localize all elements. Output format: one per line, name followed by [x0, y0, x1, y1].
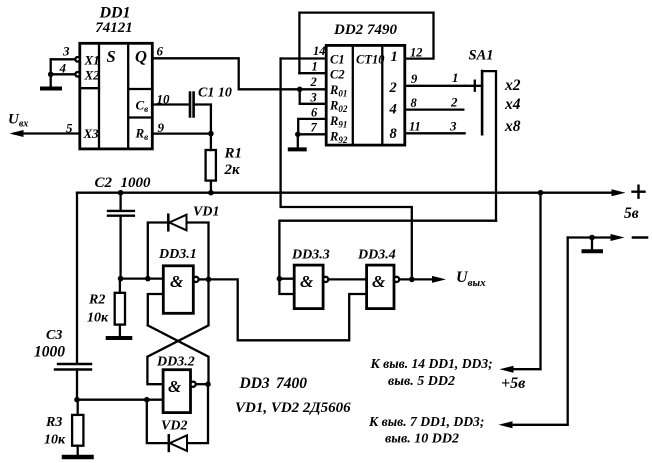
svg-text:К выв. 7 DD1, DD3;: К выв. 7 DD1, DD3; — [368, 414, 484, 429]
plus sign — [633, 186, 645, 198]
svg-text:7: 7 — [311, 121, 318, 135]
wire DD3.1 output — [199, 278, 209, 280]
svg-text:VD1, VD2 2Д5606: VD1, VD2 2Д5606 — [235, 400, 351, 416]
rail arrowhead plus — [612, 189, 626, 196]
wire node to DD3.2 input — [77, 399, 163, 401]
svg-text:14: 14 — [313, 44, 326, 58]
output arrowhead Uвых — [432, 276, 446, 283]
svg-text:&: & — [372, 272, 386, 291]
svg-text:9: 9 — [411, 72, 418, 86]
svg-text:x8: x8 — [504, 118, 521, 135]
svg-text:3: 3 — [449, 119, 457, 134]
wire node to DD3.1 input — [121, 277, 164, 279]
wire rail to C2 — [119, 193, 121, 210]
wire R92 pin7 — [298, 133, 326, 135]
gate DD3.1 body — [163, 266, 198, 314]
junction rail to R1 — [208, 190, 214, 196]
svg-text:VD2: VD2 — [161, 419, 187, 434]
ground bar under X1/X2 — [42, 87, 60, 91]
svg-text:11: 11 — [409, 120, 421, 134]
svg-text:Cв: Cв — [136, 98, 149, 115]
svg-text:&: & — [300, 272, 314, 291]
svg-text:Uвх: Uвх — [8, 112, 28, 130]
diode VD2 loop wire — [147, 384, 208, 443]
gate DD3.3 body — [294, 265, 328, 309]
wire joining pins 3,4 — [50, 59, 52, 88]
svg-text:DD3.1: DD3.1 — [158, 247, 197, 262]
svg-text:C1: C1 — [330, 53, 345, 67]
wire DD3.1 output run to DD3.4 — [209, 279, 367, 340]
minus sign — [633, 236, 647, 239]
minus branch arrowhead — [499, 421, 513, 428]
svg-text:+5в: +5в — [501, 375, 525, 392]
ground bar minus rail — [584, 249, 602, 253]
junction DD3.3 input — [277, 276, 283, 282]
wire DD3.2 output — [196, 383, 208, 385]
junction pins 3-4 — [48, 72, 54, 78]
svg-text:2к: 2к — [224, 162, 241, 178]
svg-text:R01: R01 — [329, 83, 347, 99]
wire SA1 common to DD3.3 input — [279, 221, 496, 279]
ground bar R2 — [108, 336, 131, 340]
svg-text:DD3.2: DD3.2 — [156, 355, 195, 370]
svg-text:DD2: DD2 — [333, 22, 364, 38]
svg-text:S: S — [107, 47, 116, 66]
capacitor C2 plates — [108, 211, 134, 216]
minus rail wire — [568, 236, 611, 238]
svg-text:x4: x4 — [504, 96, 521, 113]
junction DD3.4 output — [409, 277, 415, 283]
ground bar R3 — [64, 455, 92, 460]
svg-text:R1: R1 — [224, 146, 243, 162]
svg-text:5: 5 — [66, 121, 73, 136]
wire C2 pin1 — [299, 72, 326, 74]
ground stub DD2 — [297, 134, 299, 149]
svg-text:Rв: Rв — [135, 126, 149, 143]
capacitor C3 plates — [55, 364, 91, 370]
wire R1 to +5v rail — [210, 181, 212, 193]
cross wire DD3.2out to DD3.1in — [148, 325, 209, 384]
svg-text:7400: 7400 — [276, 375, 307, 392]
wire DD3.1 input2 to cross — [148, 294, 164, 325]
feedback wire DD3.4out to DD2 C1 — [281, 59, 412, 280]
diode VD2 — [169, 435, 187, 451]
junction C3/R3 — [74, 397, 80, 403]
resistor R1 — [206, 150, 216, 181]
svg-text:VD1: VD1 — [193, 205, 219, 220]
svg-text:X3: X3 — [83, 126, 100, 141]
wire C1 pin14 — [281, 57, 327, 59]
switch SA1 moving contact — [465, 81, 482, 91]
feedback loop pin12 to C2 — [299, 13, 433, 74]
wire node to R1 — [210, 134, 212, 150]
wire output8 pin11 — [405, 132, 465, 134]
svg-text:SA1: SA1 — [469, 48, 494, 64]
svg-text:x2: x2 — [504, 77, 521, 94]
svg-text:CT10: CT10 — [356, 53, 385, 67]
+5v power rail — [77, 192, 612, 194]
svg-text:R02: R02 — [329, 99, 348, 115]
input arrowhead Uвх — [10, 130, 24, 137]
diode VD1 — [168, 215, 186, 231]
svg-text:X2: X2 — [84, 68, 101, 83]
svg-text:R91: R91 — [329, 114, 347, 130]
wire R2 to ground — [119, 325, 121, 338]
switch SA1 wiper bar — [481, 71, 484, 134]
wire DD3.3 input2 loop — [279, 279, 294, 294]
wire pin5 X3 to input — [14, 132, 80, 134]
wire DD3.3 out to DD3.4 — [328, 278, 366, 280]
+5v branch arrowhead — [500, 366, 514, 373]
wire DD3.4 output — [399, 278, 433, 280]
svg-text:&: & — [170, 272, 184, 291]
junction R91/R92 — [295, 132, 301, 138]
svg-text:3: 3 — [310, 91, 317, 105]
svg-text:&: & — [168, 377, 182, 396]
+5v branch wire — [514, 193, 541, 370]
svg-text:R2: R2 — [88, 293, 105, 308]
svg-text:4: 4 — [389, 102, 397, 118]
svg-text:C1 10: C1 10 — [198, 86, 232, 101]
wire pin9 Rв — [152, 132, 211, 134]
svg-text:X1: X1 — [84, 53, 100, 68]
cross wire DD3.1out to DD3.2in — [147, 279, 208, 384]
svg-text:К выв. 14 DD1, DD3;: К выв. 14 DD1, DD3; — [370, 356, 493, 371]
svg-text:10к: 10к — [87, 311, 109, 326]
ground stub minus rail — [591, 238, 593, 251]
svg-text:1000: 1000 — [121, 175, 152, 191]
DD1 inverter circle pin X1 — [75, 57, 80, 62]
junction rail to +5v branch — [538, 190, 544, 196]
wire pin4 to X2 — [51, 73, 76, 75]
svg-text:10: 10 — [157, 92, 171, 107]
DD1 inverter circle pin X2 — [75, 72, 80, 77]
svg-text:выв. 10 DD2: выв. 10 DD2 — [385, 432, 459, 447]
svg-text:6: 6 — [157, 44, 164, 59]
svg-text:6: 6 — [311, 106, 318, 120]
svg-text:DD3.3: DD3.3 — [291, 248, 330, 263]
svg-text:R92: R92 — [329, 130, 348, 146]
wire pin10 Cв to C1 — [152, 103, 189, 105]
minus rail arrowhead — [611, 234, 625, 241]
ground bar DD2 — [290, 147, 305, 151]
svg-text:R3: R3 — [45, 415, 62, 430]
svg-text:Uвых: Uвых — [456, 269, 486, 289]
svg-text:7490: 7490 — [367, 22, 398, 38]
svg-text:C3: C3 — [46, 328, 62, 343]
svg-text:1000: 1000 — [34, 344, 65, 361]
svg-text:DD3: DD3 — [239, 375, 270, 392]
junction C1/R1/pin9 — [208, 131, 214, 137]
svg-text:12: 12 — [410, 46, 423, 60]
diode VD1 loop wire — [148, 223, 209, 280]
svg-text:DD3.4: DD3.4 — [357, 248, 396, 263]
svg-text:Q: Q — [135, 47, 147, 66]
svg-text:выв. 5 DD2: выв. 5 DD2 — [388, 374, 455, 389]
svg-text:DD1: DD1 — [98, 5, 130, 22]
wire output4 pin8 — [405, 108, 464, 110]
wire R91 pin6 — [298, 119, 326, 134]
wire rail left drop to C3 — [76, 193, 78, 363]
wire C2 to latch input node — [119, 216, 121, 279]
minus branch wire — [513, 238, 568, 425]
wire node to R2 — [119, 279, 121, 293]
switch SA1 common link — [482, 71, 496, 221]
junction C2/R2/latch — [118, 276, 124, 282]
wire output2 pin9 — [405, 85, 465, 87]
junction rail to C2 — [118, 190, 124, 196]
IC DD1 74121 body — [80, 43, 153, 149]
capacitor C1 plates — [190, 93, 194, 117]
resistor R2 — [115, 293, 125, 325]
wire C3 to node — [76, 370, 78, 400]
svg-text:8: 8 — [411, 96, 418, 110]
svg-text:C2: C2 — [330, 68, 345, 82]
wire pin3 to X1 — [51, 58, 76, 60]
svg-text:C2: C2 — [95, 175, 113, 191]
svg-text:4: 4 — [59, 61, 67, 76]
wire R02 pin3 riser — [300, 89, 327, 104]
gate DD3.4 body — [367, 265, 400, 309]
svg-text:10к: 10к — [44, 433, 66, 448]
IC DD2 7490 body — [326, 45, 405, 145]
svg-text:1: 1 — [452, 70, 459, 85]
svg-text:8: 8 — [390, 126, 398, 142]
gate DD3.2 body — [163, 370, 196, 413]
junction DD3.1 output — [206, 277, 212, 283]
svg-text:5в: 5в — [624, 205, 639, 222]
svg-text:2: 2 — [450, 95, 458, 110]
junction DD3.2 output — [205, 381, 211, 387]
svg-text:1: 1 — [312, 60, 318, 74]
junction minus ground — [589, 235, 595, 241]
svg-text:74121: 74121 — [95, 20, 133, 36]
wire R3 to ground — [77, 446, 79, 457]
svg-text:2: 2 — [310, 75, 317, 89]
resistor R3 — [72, 415, 83, 446]
svg-text:2: 2 — [389, 80, 397, 96]
junction VD2/DD3.2 input — [144, 397, 150, 403]
svg-text:3: 3 — [62, 44, 70, 59]
wire C1 to R1 top node — [194, 105, 211, 134]
svg-text:1: 1 — [391, 49, 398, 65]
wire Q pin6 to DD2 — [152, 58, 326, 89]
junction R01/R02 — [297, 87, 303, 93]
junction VD1/DD3.1 input — [145, 276, 151, 282]
svg-text:9: 9 — [158, 120, 165, 135]
wire DD3.3 input tie — [279, 278, 294, 280]
wire node to R3 — [77, 400, 79, 415]
